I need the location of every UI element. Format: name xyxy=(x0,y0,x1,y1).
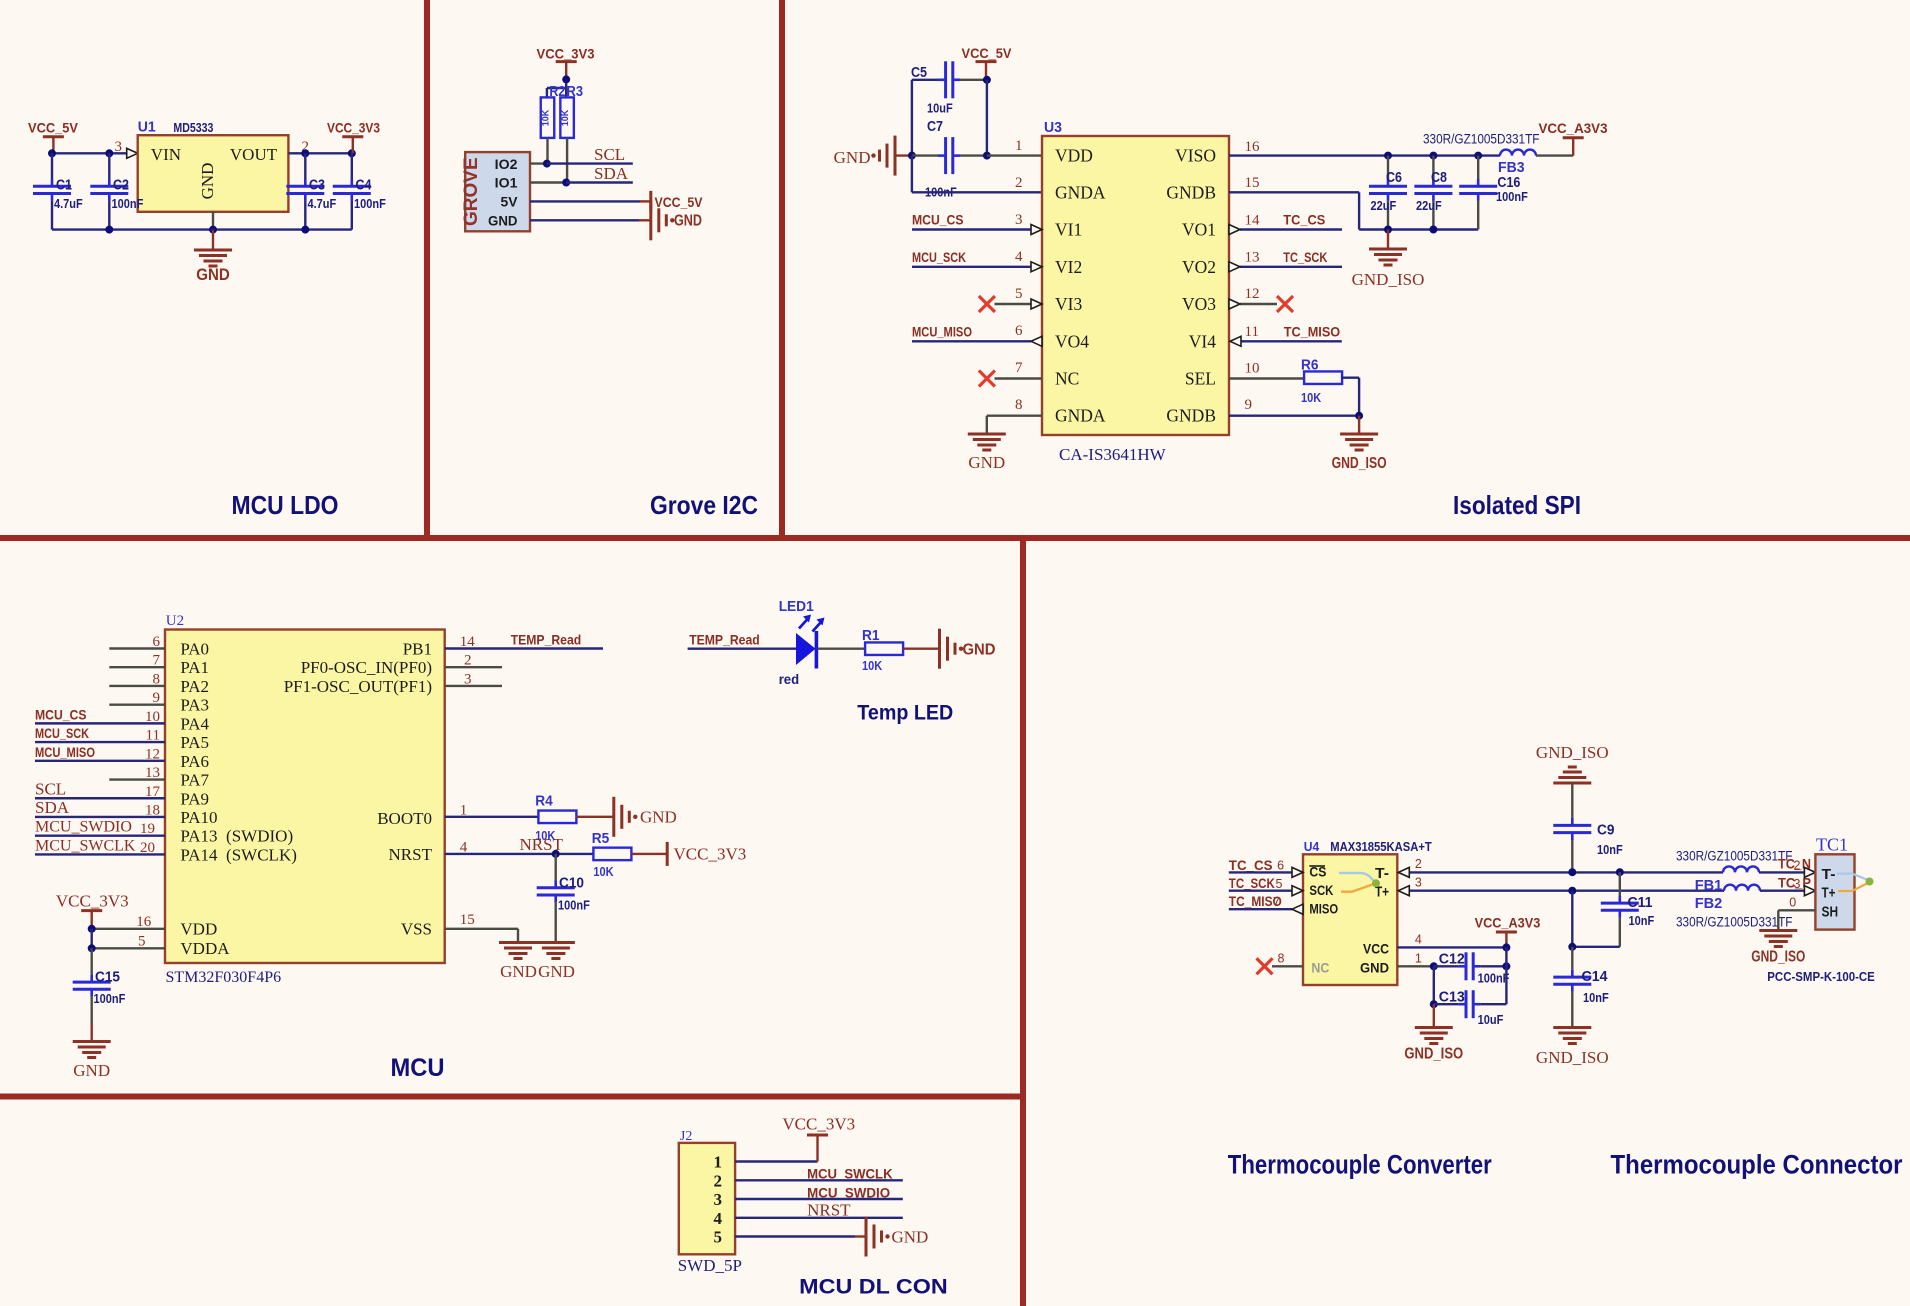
value 10K of R1 xyxy=(862,658,883,673)
pin arrow out of U4 MISO xyxy=(1292,904,1303,914)
net label MCU_SCK (U2) xyxy=(35,725,89,741)
TC1 pin name SH xyxy=(1822,903,1839,920)
svg-text:VCC_5V: VCC_5V xyxy=(962,45,1013,61)
wire FB3 to VCC_A3V3 xyxy=(1536,138,1573,156)
pin arrow into U3 VI2 xyxy=(1031,262,1042,272)
isolated ground rail xyxy=(1359,228,1478,230)
wire X to U4 NC pin8 xyxy=(1272,965,1303,967)
power flag VCC_3V3 (U2 supply) xyxy=(56,892,129,929)
svg-text:C9: C9 xyxy=(1597,823,1615,839)
junction node C11/C14 xyxy=(1568,943,1576,951)
svg-text:GNDB: GNDB xyxy=(1166,182,1216,202)
svg-text:MCU_SCK: MCU_SCK xyxy=(912,249,966,265)
svg-text:GND: GND xyxy=(1360,959,1389,975)
svg-text:PCC-SMP-K-100-CE: PCC-SMP-K-100-CE xyxy=(1767,970,1875,984)
pin arrow into TC1 T- xyxy=(1804,867,1815,877)
power flag VCC_3V3 (LDO output) xyxy=(327,120,380,154)
svg-text:10uF: 10uF xyxy=(1478,1012,1504,1027)
capacitor C8 xyxy=(1414,156,1452,230)
designator U4 xyxy=(1304,839,1320,854)
junction node C13 left xyxy=(1430,1000,1438,1008)
svg-text:GND: GND xyxy=(488,213,518,229)
svg-text:VCC: VCC xyxy=(1363,941,1389,957)
svg-text:3: 3 xyxy=(714,1190,723,1209)
junction node VISO-C8 xyxy=(1429,152,1437,160)
svg-text:GND: GND xyxy=(834,148,871,167)
U4 pin name T- xyxy=(1375,865,1389,882)
svg-text:12: 12 xyxy=(145,746,160,762)
wire U3 VO2 to TC_SCK xyxy=(1240,266,1342,268)
net label TC_P xyxy=(1778,875,1811,891)
junction node rail-C8 xyxy=(1429,226,1437,234)
value 100nF of C2 xyxy=(112,196,144,211)
svg-text:TC_CS: TC_CS xyxy=(1283,212,1325,228)
value 10nF of C9 xyxy=(1597,842,1623,857)
ground symbol GND_ISO under R6 xyxy=(1332,416,1387,472)
svg-text:GND_ISO: GND_ISO xyxy=(1536,743,1609,762)
junction node SCL pullup xyxy=(543,160,551,168)
net label MCU_CS (U3) xyxy=(912,212,964,228)
svg-text:10: 10 xyxy=(145,709,160,725)
svg-text:SCL: SCL xyxy=(594,145,625,164)
pin arrow into U4 T+ xyxy=(1398,886,1409,896)
svg-text:VO4: VO4 xyxy=(1055,331,1089,351)
wire U3 VISO to filter rail xyxy=(1229,154,1500,156)
TC1 pin name T+ xyxy=(1822,884,1836,901)
wire VCC_3V3 to pullups xyxy=(547,79,566,97)
net label TC_CS xyxy=(1283,212,1325,228)
title Temp LED xyxy=(857,702,953,725)
designator U1 xyxy=(138,120,156,136)
pin arrow out of U3 VO4 xyxy=(1031,336,1042,346)
net label SCL xyxy=(594,145,625,164)
wire R6 to GNDB xyxy=(1341,378,1359,416)
U2 pin name VSS xyxy=(401,920,432,939)
wire U1 GND pin to bus xyxy=(212,212,214,230)
wire T- junction down to C11 xyxy=(1619,872,1621,896)
pin number 11 of U3 xyxy=(1245,324,1259,340)
svg-text:TC_MISO: TC_MISO xyxy=(1284,323,1341,339)
svg-text:5: 5 xyxy=(1015,286,1023,302)
svg-text:VI4: VI4 xyxy=(1189,331,1216,351)
capacitor C11 xyxy=(1573,896,1638,947)
net label MCU_SWDIO (U2) xyxy=(35,819,132,836)
ground symbol GND under VSS xyxy=(499,943,537,982)
net label MCU_SCK (U3) xyxy=(912,249,966,265)
ground symbol GND_ISO under C14 xyxy=(1536,1028,1609,1068)
svg-text:R5: R5 xyxy=(592,831,610,847)
pin number 15 of U3 xyxy=(1245,175,1260,191)
junction node VDD xyxy=(88,925,96,933)
wire VCC_3V3 to U2 VDDA xyxy=(92,947,165,949)
designator C15 xyxy=(95,970,120,986)
ground symbol GND (grove, rotated right) xyxy=(651,200,702,240)
value 100nF of C10 xyxy=(558,898,590,913)
power flag VCC_A3V3 (isolated side) xyxy=(1539,120,1608,138)
U1 pin name GND (rotated) xyxy=(198,163,217,200)
svg-text:22uF: 22uF xyxy=(1416,198,1442,213)
junction node VISO-C6 xyxy=(1384,152,1392,160)
designator C14 xyxy=(1582,969,1608,985)
svg-text:GNDB: GNDB xyxy=(1166,406,1216,426)
junction node VCC/C12 right xyxy=(1502,943,1510,951)
designator C7 xyxy=(927,119,943,135)
value 10nF of C11 xyxy=(1629,913,1655,928)
no-connect X on U3 VI3 xyxy=(979,296,995,312)
svg-text:SCL: SCL xyxy=(35,779,66,798)
net label MCU_SWCLK (U2) xyxy=(35,837,136,854)
U4 pin name CS (with overline) xyxy=(1309,864,1326,880)
svg-text:C10: C10 xyxy=(559,876,584,892)
wire GND junction down to C13 xyxy=(1433,966,1435,1004)
svg-text:5: 5 xyxy=(138,934,146,950)
value 10K of R4 xyxy=(535,828,556,843)
svg-text:10nF: 10nF xyxy=(1629,913,1655,928)
svg-text:GND: GND xyxy=(963,642,996,659)
svg-text:VCC_A3V3: VCC_A3V3 xyxy=(1539,120,1608,136)
svg-text:TEMP_Read: TEMP_Read xyxy=(511,632,582,648)
svg-text:T-: T- xyxy=(1375,865,1389,882)
capacitor C9 xyxy=(1553,816,1591,873)
designator R1 xyxy=(862,628,880,644)
net label MCU_MISO (U3) xyxy=(912,323,972,339)
pin number 13 of U2 xyxy=(145,765,160,781)
ground symbol GND_ISO above C9 xyxy=(1536,743,1609,816)
U2 pin name VDD xyxy=(180,920,217,939)
svg-text:10K: 10K xyxy=(541,109,551,126)
pin number 18 of U2 xyxy=(145,802,160,818)
svg-text:VCC_A3V3: VCC_A3V3 xyxy=(1475,915,1541,931)
svg-text:16: 16 xyxy=(136,914,152,930)
pin arrow into TC1 T+ xyxy=(1804,886,1815,896)
section divider horizontal across page xyxy=(0,535,1910,541)
svg-text:GND_ISO: GND_ISO xyxy=(1404,1046,1463,1063)
ferrite bead FB2 xyxy=(1724,885,1760,891)
wire U2 PB1 to TEMP_Read xyxy=(445,647,603,649)
pin arrow into U4 CS xyxy=(1292,867,1303,877)
wire MCU_CS to U3 VI1 xyxy=(912,228,1031,230)
junction node C9/T- xyxy=(1568,868,1576,876)
wire net SCL to U2 pin 17 xyxy=(35,797,165,799)
value 4.7uF of C1 xyxy=(54,196,83,211)
resistor R6 xyxy=(1304,371,1342,384)
ground symbol GND (isolator left side) xyxy=(834,136,912,176)
pin number 6 of U4 xyxy=(1277,859,1284,873)
section divider vertical between MCU area and Thermocouple area xyxy=(1020,538,1026,1306)
U1 pin name VOUT xyxy=(230,145,278,164)
value 100nF of C15 xyxy=(94,991,126,1006)
pin number 2 of U4 xyxy=(1415,857,1422,871)
pin number 2 of TC1 xyxy=(1794,859,1801,873)
resistor R2 xyxy=(541,97,555,137)
wire U4 T- to TC1 T- xyxy=(1409,871,1723,873)
svg-text:11: 11 xyxy=(1245,324,1259,340)
svg-text:GND_ISO: GND_ISO xyxy=(1352,270,1425,289)
net label TC_SCK xyxy=(1283,249,1327,265)
capacitor C7 xyxy=(912,137,987,174)
net label TC_MISO (U4) xyxy=(1229,893,1282,909)
svg-text:330R/GZ1005D331TF: 330R/GZ1005D331TF xyxy=(1676,849,1793,864)
wire grove 5V to VCC_5V xyxy=(530,200,651,202)
wire grove GND to ground xyxy=(530,219,650,221)
pin number 3 of TC1 xyxy=(1794,877,1801,891)
designator FB2 xyxy=(1695,895,1723,912)
svg-text:3: 3 xyxy=(1794,877,1801,891)
wire net SDA to U2 pin 18 xyxy=(35,816,165,818)
U4 pin name NC xyxy=(1311,959,1329,975)
pin number 16 of U3 xyxy=(1245,139,1261,155)
title Thermocouple Connector xyxy=(1611,1150,1903,1180)
wire net MCU_SWCLK to U2 pin 20 xyxy=(35,853,165,855)
svg-text:1: 1 xyxy=(714,1153,723,1172)
svg-text:Isolated SPI: Isolated SPI xyxy=(1453,490,1581,520)
wire VCC_3V3 to U2 VDD xyxy=(92,928,165,930)
wire U3 GNDB pin15 to rail xyxy=(1229,192,1359,229)
resistor R1 xyxy=(865,642,903,655)
U4 pin name GND xyxy=(1360,959,1389,975)
wire R4 to GND xyxy=(576,816,614,818)
pin arrow into U1 pin 3 xyxy=(127,148,138,158)
net label TEMP_Read (U2) xyxy=(511,632,582,648)
svg-text:U1: U1 xyxy=(138,120,156,136)
svg-text:5V: 5V xyxy=(501,194,519,210)
U2 pin name PB1 xyxy=(403,640,432,659)
svg-text:MCU_CS: MCU_CS xyxy=(912,212,964,228)
svg-text:13: 13 xyxy=(1245,250,1260,266)
svg-text:VO3: VO3 xyxy=(1182,294,1216,314)
svg-text:GND_ISO: GND_ISO xyxy=(1332,455,1387,472)
part value MAX31855KASA+T xyxy=(1330,840,1432,854)
designator C5 xyxy=(911,65,927,81)
power flag VCC_3V3 (grove pullups) xyxy=(537,46,595,80)
value 4.7uF of C3 xyxy=(308,196,337,211)
wire J2 pin3 MCU_SWDIO xyxy=(735,1198,903,1200)
svg-text:16: 16 xyxy=(1245,139,1261,155)
svg-text:SWD_5P: SWD_5P xyxy=(678,1256,742,1275)
svg-text:12: 12 xyxy=(1245,286,1260,302)
svg-text:0: 0 xyxy=(1789,896,1796,910)
svg-text:2: 2 xyxy=(714,1171,723,1190)
svg-text:C3: C3 xyxy=(309,178,325,194)
designator R2 xyxy=(549,84,565,100)
U1 pin name VIN xyxy=(151,145,181,164)
part value PCC-SMP-K-100-CE xyxy=(1767,970,1875,984)
wire VCC_5V down to U3 VDD xyxy=(986,80,988,156)
value 100nF of C12 xyxy=(1478,971,1510,986)
U2 pin name VDDA xyxy=(180,939,230,958)
svg-text:GROVE: GROVE xyxy=(461,157,482,226)
svg-text:IO1: IO1 xyxy=(495,175,518,191)
connector J2 body xyxy=(679,1143,735,1254)
ground symbol GND (LED, rotated right) xyxy=(940,629,996,669)
svg-text:TC_SCK: TC_SCK xyxy=(1283,249,1327,265)
svg-text:U4: U4 xyxy=(1304,839,1320,854)
wire U4 GND pin1 xyxy=(1397,965,1434,967)
U4 pin name MISO xyxy=(1309,901,1338,917)
value red of LED1 xyxy=(779,671,799,687)
svg-text:GNDA: GNDA xyxy=(1055,406,1106,426)
designator R3 xyxy=(567,84,584,100)
svg-text:330R/GZ1005D331TF: 330R/GZ1005D331TF xyxy=(1423,132,1540,147)
designator C16 xyxy=(1497,175,1520,191)
wire R3 to SDA xyxy=(566,138,568,183)
wire J2 pin4 NRST xyxy=(735,1217,903,1219)
pin number 4 of U3 xyxy=(1015,249,1023,265)
svg-text:U3: U3 xyxy=(1044,120,1062,136)
value 22uF of C8 xyxy=(1416,198,1442,213)
svg-text:5: 5 xyxy=(714,1228,723,1247)
wire net MCU_MISO to U2 pin 12 xyxy=(35,760,165,762)
junction node VDDA xyxy=(88,944,96,952)
net label TC_CS (U4) xyxy=(1229,857,1273,873)
svg-text:GND: GND xyxy=(538,962,575,981)
wire FB2 to TC1 T+ xyxy=(1760,890,1804,892)
svg-text:VO1: VO1 xyxy=(1182,220,1216,240)
designator C2 xyxy=(113,178,129,194)
svg-text:T-: T- xyxy=(1822,866,1836,883)
pin number 6 of U3 xyxy=(1015,323,1023,339)
svg-text:Grove I2C: Grove I2C xyxy=(650,490,758,520)
wire U3 GNDA pin8 to ground xyxy=(987,416,1042,433)
svg-text:PA7: PA7 xyxy=(180,771,209,790)
svg-text:GND_ISO: GND_ISO xyxy=(1751,949,1805,966)
wire X to U3 NC xyxy=(995,377,1043,379)
svg-text:MCU_SCK: MCU_SCK xyxy=(35,725,89,741)
svg-text:MCU_MISO: MCU_MISO xyxy=(35,744,95,760)
capacitor C10 xyxy=(537,854,575,941)
ground symbol GND_ISO under C13 xyxy=(1404,1028,1463,1063)
svg-text:4: 4 xyxy=(1415,933,1422,947)
pin arrow out of U3 VO2 xyxy=(1229,262,1240,272)
part value STM32F030F4P6 xyxy=(166,969,282,986)
wire C12 right down to C13 xyxy=(1505,947,1507,1004)
value 22uF of C6 xyxy=(1371,198,1397,213)
svg-text:PB1: PB1 xyxy=(403,640,432,659)
svg-text:NC: NC xyxy=(1311,959,1329,975)
svg-text:MISO: MISO xyxy=(1309,901,1338,917)
svg-text:C1: C1 xyxy=(56,178,72,194)
svg-text:VO2: VO2 xyxy=(1182,257,1216,277)
svg-text:100nF: 100nF xyxy=(354,196,386,211)
wire U2 BOOT0 to R4 xyxy=(445,816,539,818)
designator C11 xyxy=(1628,895,1653,911)
wire TC_CS to U4 xyxy=(1229,871,1292,873)
junction node C7/VDD xyxy=(983,152,991,160)
wire R1 to GND xyxy=(903,648,938,650)
junction node VCC_5V/C5 xyxy=(983,76,991,84)
ground symbol GND_ISO under TC1 SH xyxy=(1751,931,1805,966)
svg-text:R4: R4 xyxy=(535,794,553,810)
svg-text:VDD: VDD xyxy=(1055,146,1093,166)
J2 pin numbers 1-5 xyxy=(714,1153,723,1247)
part value 330R/GZ1005D331TF (FB3) xyxy=(1423,132,1540,147)
svg-text:FB2: FB2 xyxy=(1695,895,1723,912)
U2 pin name PF1-OSC_OUT(PF1) xyxy=(284,677,432,696)
svg-text:20: 20 xyxy=(140,840,155,856)
power flag VCC_5V (isolator) xyxy=(962,45,1013,80)
svg-text:GND: GND xyxy=(968,453,1005,472)
U4 pin name T+ xyxy=(1375,884,1389,901)
pin number 5 of U4 xyxy=(1276,877,1283,891)
svg-text:C6: C6 xyxy=(1386,170,1402,186)
svg-text:100nF: 100nF xyxy=(1478,971,1510,986)
wire MCU_SCK to U3 VI2 xyxy=(912,266,1031,268)
part value CA-IS3641HW xyxy=(1059,445,1167,464)
ground symbol GND_ISO under C6 xyxy=(1352,230,1425,290)
svg-text:8: 8 xyxy=(1015,397,1023,413)
svg-text:PF0-OSC_IN(PF0): PF0-OSC_IN(PF0) xyxy=(301,658,432,677)
pin number 9 of U3 xyxy=(1245,397,1253,413)
wire U2 pin 6 stub xyxy=(109,647,165,649)
junction node C12 right xyxy=(1502,962,1510,970)
TC1 pin name T- xyxy=(1822,866,1836,883)
pin number 8 of U4 xyxy=(1278,952,1285,966)
no-connect X on U3 VO3 xyxy=(1277,296,1293,312)
net label SDA xyxy=(594,164,629,183)
junction node T- branch xyxy=(1616,868,1624,876)
svg-text:MCU_SWDIO: MCU_SWDIO xyxy=(35,819,132,836)
svg-text:10uF: 10uF xyxy=(927,101,953,116)
svg-text:NC: NC xyxy=(1055,369,1079,389)
pin number 1 of U2 xyxy=(460,803,468,819)
wire U2 NRST to R5 xyxy=(445,853,594,855)
svg-text:PA14 (SWCLK): PA14 (SWCLK) xyxy=(180,845,297,864)
svg-text:17: 17 xyxy=(145,784,161,800)
wire grove IO2 to SCL junction xyxy=(530,162,547,164)
svg-text:10K: 10K xyxy=(560,109,570,126)
svg-text:VIN: VIN xyxy=(151,145,181,164)
svg-text:4: 4 xyxy=(714,1209,723,1228)
grove pin name GND xyxy=(488,213,518,229)
pin number 3 of U1 xyxy=(115,139,123,155)
designator U3 xyxy=(1044,120,1062,136)
svg-text:PA5: PA5 xyxy=(180,733,209,752)
svg-text:TC_CS: TC_CS xyxy=(1229,857,1273,873)
power flag VCC_A3V3 (U4) xyxy=(1475,915,1541,933)
title Isolated SPI xyxy=(1453,490,1581,520)
wire U2 PF1 stub xyxy=(445,685,502,687)
svg-text:PA4: PA4 xyxy=(180,714,209,733)
svg-text:C12: C12 xyxy=(1439,952,1465,968)
svg-text:MCU_SWCLK: MCU_SWCLK xyxy=(35,837,136,854)
designator C13 xyxy=(1439,990,1465,1006)
svg-text:7: 7 xyxy=(1015,360,1023,376)
svg-text:FB1: FB1 xyxy=(1695,877,1723,894)
junction node bus-GND xyxy=(209,226,217,234)
wire FB1 to TC1 T- xyxy=(1759,871,1804,873)
wire MCU_MISO to U3 VO4 xyxy=(912,340,1031,342)
svg-text:Temp LED: Temp LED xyxy=(857,702,953,725)
net label MCU_SWDIO (J2) xyxy=(807,1184,890,1200)
wire X to U3 VI3 xyxy=(995,303,1032,305)
svg-text:GND: GND xyxy=(640,808,677,827)
pin number 10 of U3 xyxy=(1245,361,1260,377)
title Thermocouple Converter xyxy=(1228,1150,1492,1180)
wire R2 to SCL xyxy=(546,138,548,164)
pin number 2 of U2 xyxy=(464,653,472,669)
svg-text:C8: C8 xyxy=(1431,170,1447,186)
junction node at C2 top xyxy=(105,149,113,157)
wire VCC_5V to U1 VIN xyxy=(52,152,127,154)
capacitor C6 xyxy=(1369,156,1407,230)
pin number 12 of U2 xyxy=(145,746,160,762)
svg-text:100nF: 100nF xyxy=(1496,189,1528,204)
svg-text:PA1: PA1 xyxy=(180,658,209,677)
net label MCU_SWCLK (J2) xyxy=(807,1166,893,1182)
designator R4 xyxy=(535,794,553,810)
grove connector label GROVE (rotated) xyxy=(461,157,482,226)
svg-text:9: 9 xyxy=(1245,397,1253,413)
